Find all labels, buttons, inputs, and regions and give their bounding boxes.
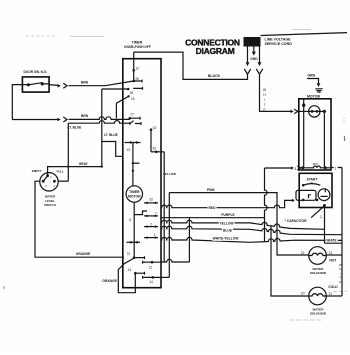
scan speck left xyxy=(3,286,5,289)
connector fork pin3 xyxy=(297,166,300,170)
svg-text:70: 70 xyxy=(126,252,130,256)
contact row mid low xyxy=(127,241,141,243)
svg-text:* CAPACITOR: * CAPACITOR xyxy=(285,219,308,223)
svg-text:28: 28 xyxy=(130,91,134,95)
scan smudge bottom center xyxy=(289,319,321,321)
node 70 xyxy=(133,256,136,259)
wire service drop neutral xyxy=(259,47,261,63)
svg-text:SWITCH: SWITCH xyxy=(44,203,56,207)
svg-text:BRN: BRN xyxy=(81,114,89,118)
node motor terminal xyxy=(302,104,305,107)
svg-text:E: E xyxy=(339,280,341,284)
node ltblue contact xyxy=(129,122,131,124)
svg-text:RED: RED xyxy=(209,206,217,210)
wire wls full up xyxy=(67,123,69,181)
svg-text:HOT: HOT xyxy=(329,258,336,262)
svg-text:1: 1 xyxy=(334,166,336,170)
wire 13 to motor node xyxy=(132,143,134,171)
svg-text:GRN: GRN xyxy=(308,74,316,78)
timer motor M2 xyxy=(126,186,142,202)
svg-text:SOLENOID: SOLENOID xyxy=(310,311,327,315)
wire BLACK run to timer xyxy=(134,52,248,79)
svg-text:EMPTY: EMPTY xyxy=(32,169,42,173)
svg-text:I: I xyxy=(264,98,265,102)
contact 62 lower xyxy=(155,151,158,154)
contact mid dot xyxy=(132,162,134,164)
svg-text:KNOB-PUSH OFF: KNOB-PUSH OFF xyxy=(124,45,151,49)
svg-text:2: 2 xyxy=(150,222,152,226)
svg-text:SOLENOID: SOLENOID xyxy=(310,271,327,275)
wire cold 21 xyxy=(326,295,342,297)
contact 28 row xyxy=(102,88,128,90)
contact 13 row xyxy=(125,142,141,144)
svg-text:YELLOW: YELLOW xyxy=(163,172,176,176)
wire door sw loop left xyxy=(12,85,22,120)
node 26 xyxy=(132,80,135,83)
svg-text:MOTOR: MOTOR xyxy=(307,95,320,99)
svg-text:20: 20 xyxy=(301,292,305,296)
motor M1 xyxy=(309,106,320,117)
start motor M3 xyxy=(318,189,330,201)
svg-text:22: 22 xyxy=(301,251,305,255)
svg-text:BLACK: BLACK xyxy=(208,74,221,78)
wire hot 21 xyxy=(326,254,342,256)
svg-text:13: 13 xyxy=(128,268,132,272)
svg-text:PURPLE: PURPLE xyxy=(221,213,235,217)
wire WHITE-YELLOW run xyxy=(161,237,343,242)
hot water solenoid L1 xyxy=(309,247,327,265)
svg-text:TIMER: TIMER xyxy=(132,41,143,45)
svg-text:BLUE: BLUE xyxy=(223,228,233,232)
connector fork brn2 xyxy=(63,117,67,122)
cold water solenoid L2 xyxy=(309,287,327,305)
motor box U1 xyxy=(299,99,331,170)
svg-text:62: 62 xyxy=(153,146,157,150)
svg-text:MOTOR: MOTOR xyxy=(128,195,141,199)
wire purple vertical xyxy=(188,218,190,262)
scan marks right of motor box xyxy=(343,117,345,124)
connector fork N xyxy=(256,69,262,74)
connector fork motor white xyxy=(294,109,298,113)
contact blade 70 orange xyxy=(124,258,134,264)
wire 62 row exit xyxy=(151,151,164,153)
svg-text:15: 15 xyxy=(131,97,135,101)
wire jog 8 xyxy=(134,211,147,215)
wire 62 vertical xyxy=(163,152,165,262)
door switch contacts xyxy=(27,83,30,86)
wire BRN door sw upper xyxy=(49,84,57,87)
svg-text:WHITE: WHITE xyxy=(326,239,336,243)
svg-text:62: 62 xyxy=(153,126,157,130)
wire GRN to ground xyxy=(307,79,319,84)
scan smudge top left xyxy=(26,35,56,37)
contact 28 fixed xyxy=(133,87,142,90)
timer box xyxy=(123,59,161,288)
wire service drop L1 black xyxy=(247,47,249,63)
wire timer pin12 feed xyxy=(133,52,135,81)
svg-text:ORANGE: ORANGE xyxy=(102,279,117,283)
wire PURPLE run xyxy=(161,217,265,219)
svg-text:27: 27 xyxy=(130,112,134,116)
svg-text:PINK: PINK xyxy=(207,188,215,192)
wire white into motor xyxy=(299,110,309,112)
contact 27 fixed xyxy=(131,117,140,120)
wire orange loop to 13 xyxy=(118,264,135,293)
svg-text:25: 25 xyxy=(310,181,314,185)
wire wls empty to orange run xyxy=(35,181,124,257)
wire step inside xyxy=(102,142,123,157)
door switch box xyxy=(22,77,49,92)
capacitor pointer xyxy=(311,206,324,217)
wire PINK run to hot solenoid xyxy=(169,193,308,255)
wire water level to contact 28 xyxy=(101,89,103,167)
start contact row xyxy=(302,184,305,187)
svg-text:3: 3 xyxy=(294,167,296,171)
wire BLUE run xyxy=(161,226,343,235)
svg-text:DIAGRAM: DIAGRAM xyxy=(196,46,235,56)
svg-text:COLD: COLD xyxy=(328,285,338,289)
ground symbol motor xyxy=(315,89,322,92)
svg-text:26: 26 xyxy=(135,77,139,81)
connector fork brn1 xyxy=(63,83,67,88)
wire LT BLUE row xyxy=(68,121,129,124)
svg-text:FULL: FULL xyxy=(57,170,65,174)
svg-text:GRAY: GRAY xyxy=(79,162,89,166)
svg-text:T: T xyxy=(263,103,265,107)
wire cold solenoid vertical xyxy=(271,226,309,296)
svg-text:ORANGE: ORANGE xyxy=(76,252,91,256)
wire 62 down xyxy=(150,130,152,152)
svg-text:8: 8 xyxy=(129,218,131,222)
connector fork L1 xyxy=(244,69,250,74)
svg-text:2: 2 xyxy=(320,215,322,219)
wire WHITE neutral segment xyxy=(325,242,343,244)
node 13 lower xyxy=(134,272,137,275)
svg-text:WHITE-YELLOW: WHITE-YELLOW xyxy=(213,236,240,240)
wire start pin2 down to white xyxy=(324,205,326,243)
scan smudge bottom right xyxy=(333,291,347,293)
wire BRN door sw lower xyxy=(12,119,57,121)
wire YELLOW run xyxy=(161,220,325,229)
svg-text:4PN: 4PN xyxy=(313,162,319,166)
wire motor pin3 vertical xyxy=(265,168,268,241)
start switch body xyxy=(296,190,316,200)
svg-text:TIMER: TIMER xyxy=(129,190,140,194)
wire WHITE run to motor xyxy=(260,74,291,111)
svg-text:YELLOW: YELLOW xyxy=(219,222,234,226)
svg-text:SERVICE CORD: SERVICE CORD xyxy=(265,42,293,46)
line voltage service cord plug xyxy=(244,37,261,47)
svg-text:13: 13 xyxy=(126,148,130,152)
wire brn1 to contact 26 xyxy=(69,81,134,86)
wire GRAY xyxy=(48,167,102,176)
svg-text:14: 14 xyxy=(149,280,153,284)
node 12 xyxy=(132,69,135,72)
svg-text:DOOR SW. N.O.: DOOR SW. N.O. xyxy=(24,70,48,74)
node 62 upper xyxy=(150,128,153,131)
wire pin14 to pink vertical xyxy=(161,276,170,278)
wire wls right contact xyxy=(58,180,68,182)
wire motor internal left xyxy=(303,99,305,168)
svg-text:LT. BLUE: LT. BLUE xyxy=(68,126,82,130)
contact blade 15 xyxy=(116,96,128,118)
node start pin2 xyxy=(323,204,326,207)
wire pin12 row xyxy=(161,259,190,262)
node 27 xyxy=(129,117,132,120)
start switch box xyxy=(299,173,332,207)
contact 26 fixed xyxy=(134,80,142,83)
svg-text:BRN: BRN xyxy=(81,80,89,84)
svg-text:GND: GND xyxy=(250,57,258,61)
wire mains top line xyxy=(261,33,348,36)
scan smudge top right xyxy=(292,29,311,31)
svg-text:12: 12 xyxy=(135,67,139,71)
svg-text:12: 12 xyxy=(149,265,153,269)
wire to timer motor xyxy=(132,171,134,186)
svg-text:LT. BLUE: LT. BLUE xyxy=(104,133,118,137)
water level switch S2 xyxy=(40,173,58,191)
wire motor to internal bus xyxy=(320,110,325,112)
wire motor pin3 xyxy=(265,167,292,169)
connector 4PN row xyxy=(299,166,331,168)
svg-text:32: 32 xyxy=(149,197,153,201)
wire brn2 to contact 27 xyxy=(69,117,130,120)
wire motor pin1 xyxy=(331,168,342,297)
wire service drop GND xyxy=(253,47,255,52)
wire timer motor down xyxy=(133,202,135,257)
wire RED run to start switch xyxy=(161,200,293,207)
